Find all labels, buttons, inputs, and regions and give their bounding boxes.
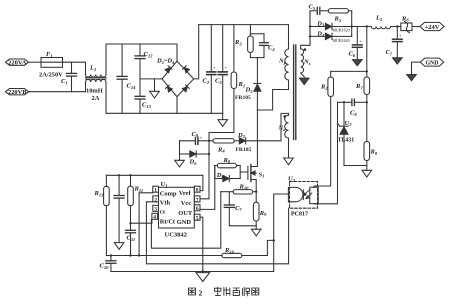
svg-text:PC817: PC817 — [291, 212, 308, 218]
node source — [255, 191, 257, 193]
transformer core — [294, 45, 296, 140]
resistor R9 sense — [253, 192, 267, 230]
svg-text:10mH: 10mH — [86, 87, 103, 94]
svg-text:MUR1620: MUR1620 — [333, 38, 350, 43]
svg-text:cs: cs — [160, 208, 166, 215]
diode D4 MUR1620 — [310, 31, 352, 43]
svg-text:220VA: 220VA — [8, 61, 27, 67]
bridge rectifier D1~D4 — [156, 58, 194, 114]
earth ground sense — [251, 229, 261, 236]
wire opto LED anode staircase — [274, 194, 290, 240]
capacitor C3 — [215, 25, 227, 114]
capacitor C7 output — [386, 27, 403, 65]
earth ground aux — [284, 138, 294, 165]
capacitor C1 — [61, 62, 77, 91]
terminal +24V — [420, 22, 444, 31]
shunt regulator U2 TL431 — [337, 102, 367, 165]
earth ground Vref bypass — [114, 243, 124, 250]
node C8 left tap — [343, 101, 345, 103]
svg-text:GND: GND — [426, 59, 440, 66]
svg-text:+: + — [200, 137, 203, 142]
pin 4 box — [152, 213, 158, 220]
earth ground EMI mid — [150, 79, 160, 98]
capacitor C13 — [135, 79, 152, 113]
svg-text:FR105: FR105 — [235, 95, 251, 101]
pin 5 box — [194, 214, 200, 221]
resistor R1 startup — [209, 25, 245, 141]
terminal GND — [407, 58, 444, 81]
wire top rail EMI — [106, 44, 177, 61]
wire fuse to choke — [63, 61, 86, 63]
wire diode anode vertical — [309, 11, 311, 46]
wire after L2 — [391, 26, 401, 28]
optocoupler U3 PC817 — [288, 176, 318, 218]
wire pin8 riser done above / wire pin7 Vcc riser — [200, 141, 209, 199]
node diode cathode — [351, 25, 353, 27]
resistor R7 divider top — [355, 27, 370, 142]
caption figure 2 — [189, 288, 196, 295]
wire primary bottom jog to drain — [257, 80, 288, 110]
node diode anode D3 — [309, 25, 311, 27]
capacitor C12 — [135, 44, 153, 79]
wire bottom rail EMI — [106, 112, 223, 114]
svg-text:+24V: +24V — [425, 24, 440, 31]
diode D8 gate — [215, 166, 240, 182]
wire pin6 OUT riser — [200, 166, 215, 210]
wire staircase to line c — [273, 240, 275, 271]
transformer aux Na — [278, 115, 289, 138]
earth ground secondary — [299, 73, 309, 85]
capacitor C14 — [117, 44, 136, 113]
wire line c — [111, 271, 274, 273]
wire opto cathode to line b — [146, 202, 288, 264]
earth ground C9 D6 — [175, 141, 185, 167]
capacitor C10 — [100, 254, 116, 271]
terminal 220VA — [6, 59, 29, 67]
svg-text:FR105: FR105 — [236, 147, 252, 153]
pin 2 box — [153, 196, 159, 203]
svg-text:MUR1620: MUR1620 — [333, 28, 350, 33]
svg-text:+: + — [359, 40, 362, 45]
node C11 ground join — [129, 254, 131, 256]
wire R6 to +24V — [412, 26, 420, 28]
svg-text:2A/250V: 2A/250V — [39, 72, 63, 79]
resistor R8 gate — [215, 157, 240, 168]
node staircase — [273, 239, 275, 241]
svg-text:5: 5 — [196, 216, 199, 222]
svg-text:4: 4 — [153, 215, 156, 221]
node R2 feed join — [366, 70, 368, 72]
node diode anode D4 — [309, 35, 311, 37]
capacitor C11 — [126, 230, 136, 255]
diode D5 FR105 clamp — [235, 58, 261, 110]
svg-text:7: 7 — [196, 197, 199, 203]
resistor R16 — [222, 247, 268, 258]
capacitor C6 — [349, 27, 363, 66]
wire TL431 cathode to opto cathode — [315, 102, 337, 204]
wire Na top to D2 row — [248, 113, 289, 140]
transformer secondary Ns — [301, 48, 311, 73]
pin 7 box — [194, 196, 200, 203]
resistor R13 — [94, 175, 110, 255]
transistor S1 MOSFET — [248, 165, 265, 192]
common-mode choke L1 10mH 2A — [86, 44, 107, 113]
node Vcc — [208, 140, 210, 142]
node output rail C7 — [396, 25, 398, 27]
diode D2 FR105 — [236, 132, 252, 153]
resistor R4 — [209, 139, 239, 154]
svg-text:2: 2 — [199, 288, 203, 297]
svg-text:Vcc: Vcc — [181, 200, 191, 207]
IC U1 UC3842 — [159, 181, 195, 239]
wire 220VA to fuse — [29, 61, 42, 63]
diode D3 MUR1620 — [310, 20, 352, 32]
wire Ns top to diodes — [301, 11, 310, 49]
terminal 220VB — [6, 89, 29, 97]
wire Vref rail — [106, 175, 202, 190]
resistor R5 snubber — [328, 9, 351, 23]
wire R2 feed tap — [331, 70, 367, 72]
svg-text:Vref: Vref — [179, 190, 192, 197]
wire pin4 row — [129, 219, 152, 224]
svg-text:+: + — [224, 66, 227, 71]
transformer primary Np — [278, 49, 289, 80]
svg-text:TL431: TL431 — [338, 138, 355, 144]
svg-text:Rt/Ct: Rt/Ct — [160, 219, 176, 226]
resistor R10 — [221, 183, 256, 194]
capacitor C5 snubber — [309, 4, 329, 15]
wire plus rail — [199, 25, 289, 49]
svg-text:+: + — [399, 34, 402, 39]
wire drain vertical — [251, 110, 258, 167]
earth ground primary rail — [218, 113, 228, 126]
resistor R2 opto feed — [315, 71, 333, 186]
wire 220VB to choke — [29, 91, 86, 93]
capacitor C9 Vcc — [180, 131, 210, 145]
pin 6 box — [194, 205, 200, 212]
capacitor C2 — [203, 25, 216, 114]
capacitor C8 — [338, 99, 367, 117]
svg-text:220VB: 220VB — [8, 90, 27, 96]
svg-text:OUT: OUT — [178, 210, 193, 217]
earth ground TL431 — [362, 166, 372, 178]
earth ground main — [196, 270, 210, 281]
inductor L2 — [371, 15, 390, 29]
wire diode cathode vertical — [351, 11, 353, 37]
resistor R6 fusible — [401, 15, 412, 32]
wire pin1 to line a — [138, 193, 153, 257]
wire pin5 to ground — [200, 217, 203, 271]
svg-text:2A: 2A — [92, 95, 100, 102]
wire wrap pin4 to CS node — [151, 192, 220, 249]
wire mid node to bridge — [140, 78, 162, 80]
svg-text:2: 2 — [154, 197, 157, 203]
svg-text:GND: GND — [177, 219, 192, 226]
wire output rail — [352, 26, 372, 28]
svg-text:Comp: Comp — [160, 191, 177, 198]
resistor R3 clamp — [234, 25, 264, 58]
diode D6 — [180, 151, 210, 166]
svg-text:8: 8 — [196, 188, 199, 194]
capacitor Vref bypass — [114, 174, 124, 243]
wire line a riser — [267, 240, 273, 255]
node C8 right — [366, 101, 368, 103]
svg-text:3: 3 — [154, 207, 157, 213]
svg-text:Vth: Vth — [160, 200, 171, 207]
wire bridge plus riser — [194, 25, 199, 79]
svg-text:+: + — [213, 66, 216, 71]
pin 1 box — [153, 186, 159, 193]
svg-text:UC3842: UC3842 — [165, 232, 187, 239]
resistor R11 — [128, 174, 143, 230]
fuse F1 2A/250V — [39, 51, 63, 79]
svg-text:6: 6 — [196, 206, 199, 212]
node D6 row join — [208, 153, 210, 155]
node divider tap — [366, 25, 368, 27]
pin 3 box — [153, 205, 159, 212]
svg-text:1: 1 — [154, 188, 157, 194]
pin 8 box — [194, 186, 200, 193]
wire line a — [106, 255, 221, 257]
wire C7 bottom row — [229, 225, 256, 227]
resistor R9 divider bottom — [364, 142, 378, 166]
wire gate — [240, 171, 248, 173]
capacitor C4 clamp — [250, 34, 275, 58]
capacitor C7 cs filter — [224, 192, 242, 226]
